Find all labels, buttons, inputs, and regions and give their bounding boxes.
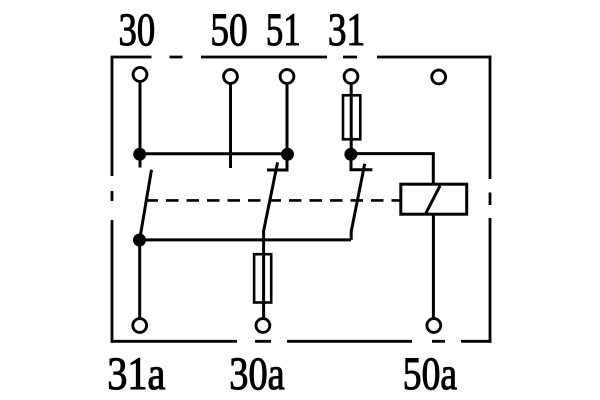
switch blade S3 (right) — [351, 164, 365, 240]
relay coil K1 — [401, 184, 467, 214]
wire 51 stem with fixed contact — [267, 84, 287, 171]
switch blade S1 (left) — [140, 170, 151, 237]
svg-text:51: 51 — [266, 4, 301, 56]
enclosure left border (chain line) — [111, 56, 114, 343]
wire bus 31a (horizontal) — [140, 238, 351, 241]
svg-text:50: 50 — [210, 4, 247, 56]
node junction 51/bus — [281, 148, 294, 161]
terminal unlabeled top right — [432, 70, 446, 84]
terminal 31 — [344, 70, 358, 84]
node junction 31a/bus — [133, 234, 146, 247]
terminal 51 — [280, 70, 294, 84]
terminal 30a — [256, 319, 270, 333]
wire 30 stem — [139, 82, 142, 168]
enclosure top border (chain line) — [112, 56, 491, 59]
fixed contact of right switch — [351, 154, 372, 170]
wire 31 stem through fuse — [350, 84, 353, 155]
wire bus 30 (horizontal) — [140, 152, 288, 155]
wire coil to terminal 50a — [432, 214, 435, 318]
terminal 31a — [133, 319, 147, 333]
svg-text:31a: 31a — [107, 348, 165, 400]
terminal 50a — [427, 319, 441, 333]
enclosure bottom border (chain line) — [111, 340, 492, 343]
wire 50 stem — [229, 84, 232, 169]
svg-text:30: 30 — [119, 4, 156, 56]
enclosure right border (chain line) — [489, 56, 492, 343]
terminal 30 — [133, 68, 147, 82]
node junction 30/bus — [133, 148, 146, 161]
svg-text:31: 31 — [328, 4, 365, 56]
switch blade S2 (middle) through fuse to 30a — [264, 162, 278, 318]
mechanical linkage (dashed) — [146, 199, 401, 202]
terminal 50 — [224, 70, 238, 84]
fuse F1 (terminal 31) — [343, 95, 360, 139]
wire 31a stem — [138, 240, 141, 318]
fuse F2 (terminal 30a) — [254, 254, 271, 302]
svg-text:50a: 50a — [403, 348, 457, 400]
wire coil feed — [351, 154, 433, 185]
node junction 31/coil — [344, 148, 357, 161]
svg-text:30a: 30a — [229, 348, 285, 400]
